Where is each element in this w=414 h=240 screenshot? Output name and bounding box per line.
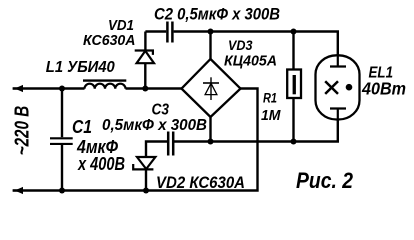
wire: bridge bottom corner lead	[209, 117, 211, 142]
svg-text:0,5мкФ х 300В: 0,5мкФ х 300В	[102, 117, 207, 134]
svg-text:VD1: VD1	[108, 18, 134, 34]
node: junction C2 right / bridge top	[208, 29, 214, 35]
bridge VD3 inner diode cathode bar	[203, 82, 219, 84]
svg-text:R1: R1	[263, 91, 277, 106]
zener diode VD2 cathode lead	[145, 169, 147, 190]
inductor L1 winding	[85, 84, 126, 89]
node: junction C1 top	[59, 86, 65, 92]
node: junction C3 right / bridge bottom	[208, 139, 214, 145]
svg-text:КС630А: КС630А	[83, 33, 136, 49]
node: junction C1 bottom	[59, 188, 65, 194]
wire: middle rail (y=141.5) with C3 gap, to lamp bottom	[146, 120, 338, 158]
svg-text:С1: С1	[72, 117, 92, 137]
node: junction R1 bottom	[291, 139, 297, 145]
resistor R1 inner bar	[293, 75, 296, 94]
resistor R1 bottom lead	[292, 98, 294, 142]
svg-text:L1 УБИ40: L1 УБИ40	[46, 59, 115, 76]
wire: C1 branch vertical top	[61, 89, 63, 138]
zener diode VD1 triangle	[137, 51, 154, 63]
arrow: left output bottom	[13, 189, 23, 191]
resistor R1 body	[287, 70, 301, 99]
svg-text:~220 B: ~220 B	[11, 106, 34, 156]
svg-text:VD3: VD3	[228, 37, 253, 53]
lamp EL1 dot	[346, 84, 353, 91]
lamp EL1 cross	[325, 81, 338, 94]
inductor L1 core bar	[83, 79, 126, 81]
wire: bottom rail with right side riser to bridge right corner	[13, 89, 258, 191]
zener diode VD2 cathode bar with hook	[133, 164, 153, 169]
zener diode VD1 cathode lead and top wire corner	[144, 32, 146, 51]
svg-text:С3: С3	[152, 102, 170, 119]
bridge VD3 inner diode triangle	[205, 83, 217, 94]
svg-text:Puc. 2: Puc. 2	[296, 168, 354, 193]
zener diode VD2 triangle	[137, 157, 155, 169]
svg-text:С2 0,5мкФ х 300В: С2 0,5мкФ х 300В	[154, 5, 280, 24]
wire: C1 branch vertical bottom	[61, 145, 63, 191]
lamp EL1 bulb outline	[316, 55, 360, 119]
node: junction R1 top	[291, 29, 297, 35]
wire: top AC rail (y=88.5) from arrow to bridge left corner	[13, 87, 182, 89]
zener diode VD1 cathode bar with hook	[135, 51, 153, 55]
bridge VD3 inner diode lead	[210, 77, 212, 100]
svg-text:х 400В: х 400В	[77, 154, 125, 174]
lamp EL1 bottom electrode	[330, 109, 346, 120]
svg-text:VD2 КС630А: VD2 КС630А	[156, 173, 245, 192]
node: junction VD1 anode	[142, 86, 148, 92]
lamp EL1 top electrode	[330, 55, 346, 66]
resistor R1 top lead	[292, 32, 294, 70]
node: junction VD2 cathode	[143, 188, 149, 194]
capacitor C1 plates	[50, 138, 73, 144]
zener diode VD1 anode lead	[144, 63, 146, 88]
wire: bridge top corner lead	[209, 32, 211, 60]
svg-text:КЦ405А: КЦ405А	[224, 54, 277, 70]
capacitor C3 plates	[168, 132, 173, 156]
arrow: left output top	[13, 87, 23, 89]
svg-text:40Вm: 40Вm	[361, 79, 406, 99]
capacitor C2 plates	[167, 22, 172, 43]
bridge rectifier VD3 diamond	[182, 59, 241, 117]
svg-text:1М: 1М	[261, 108, 281, 124]
wire: top DC rail (y=31.5) left segment with C2 gap	[145, 32, 337, 56]
